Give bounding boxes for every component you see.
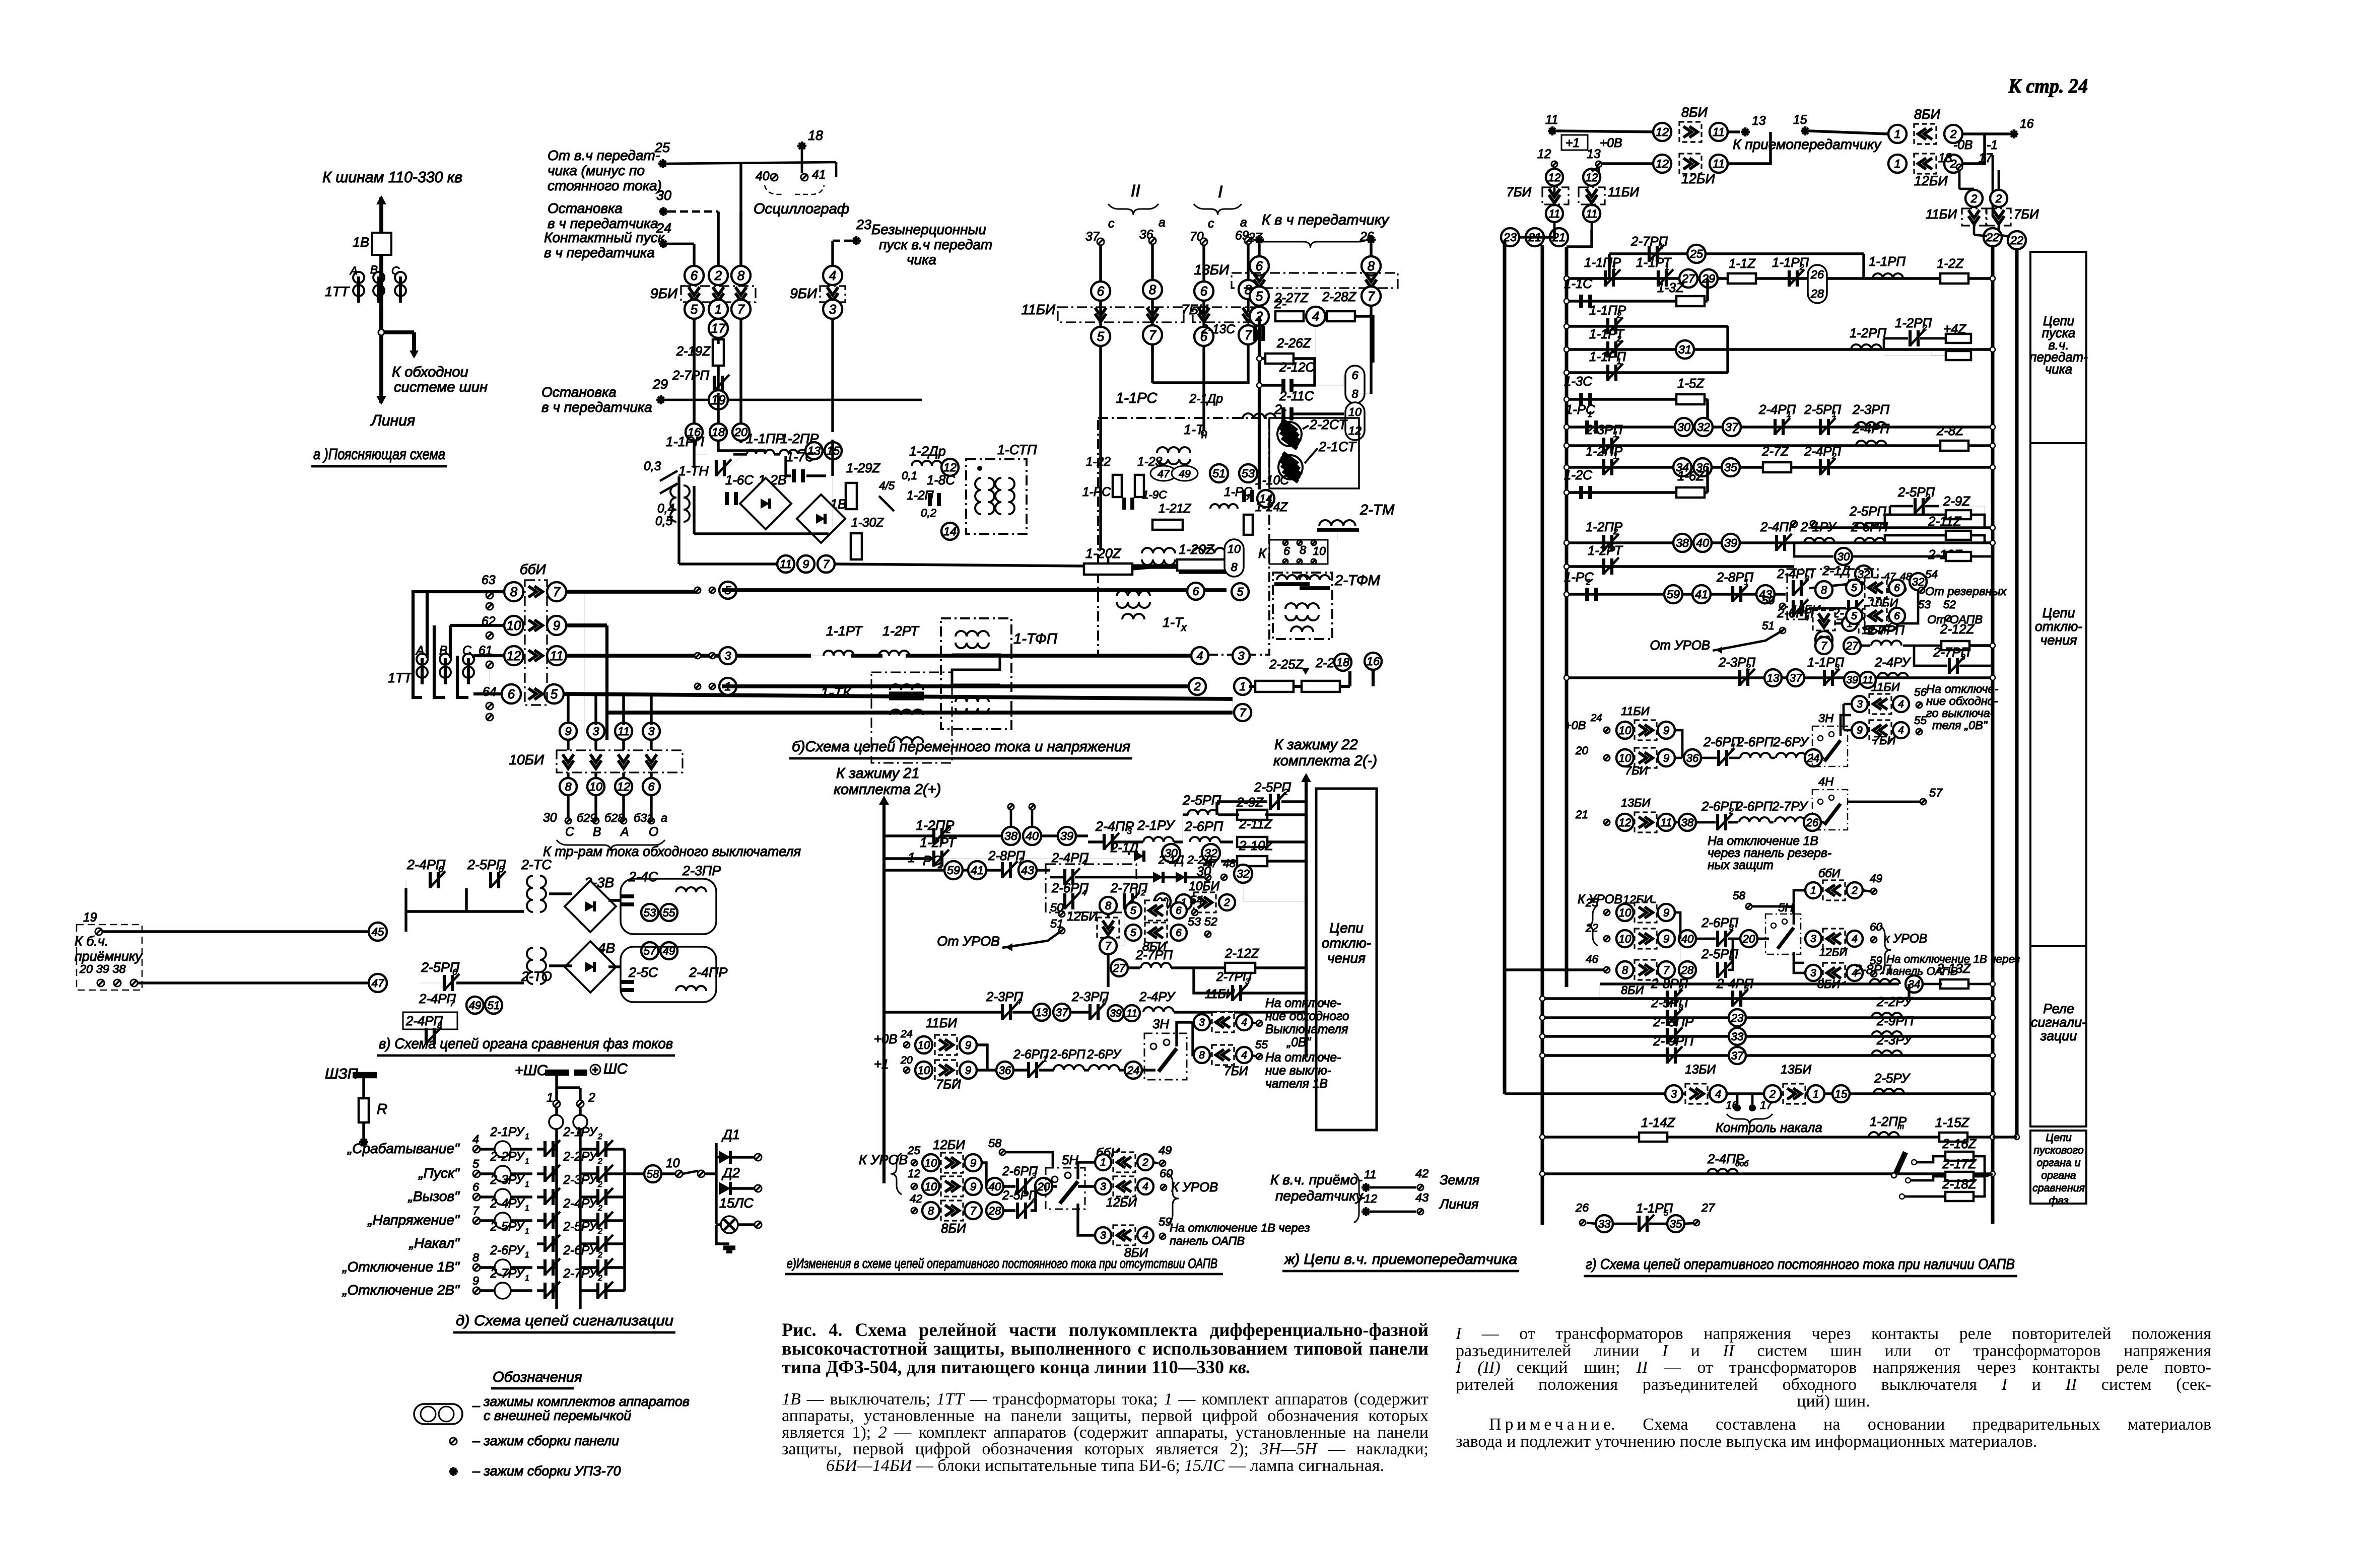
svg-text:1-1РП: 1-1РП	[1869, 255, 1906, 269]
svg-text:13БИ: 13БИ	[1685, 1063, 1716, 1077]
svg-text:Цепи: Цепи	[2043, 605, 2075, 620]
svg-text:с: с	[1208, 217, 1214, 231]
svg-text:7БИ: 7БИ	[936, 1078, 961, 1092]
svg-text:41: 41	[1695, 588, 1708, 601]
svg-text:49: 49	[469, 999, 482, 1012]
svg-text:1-10С: 1-10С	[1255, 474, 1289, 487]
svg-text:11: 11	[1713, 125, 1725, 138]
svg-text:2-8Z: 2-8Z	[1936, 424, 1964, 438]
svg-text:24: 24	[1590, 713, 1602, 724]
svg-text:11: 11	[1364, 1168, 1376, 1181]
svg-text:Линия: Линия	[370, 412, 415, 429]
svg-text:чателя 1В: чателя 1В	[1265, 1077, 1328, 1091]
svg-text:„Накал": „Накал"	[409, 1235, 460, 1251]
svg-text:8: 8	[1368, 259, 1375, 273]
svg-text:„0В": „0В"	[1286, 1036, 1311, 1049]
svg-text:6: 6	[1176, 905, 1182, 917]
svg-text:41: 41	[812, 168, 826, 182]
svg-text:40: 40	[1026, 829, 1039, 842]
svg-text:2: 2	[597, 1274, 602, 1283]
svg-text:18: 18	[808, 128, 823, 143]
svg-text:2: 2	[1140, 889, 1145, 897]
svg-text:2-3РУ: 2-3РУ	[1876, 1033, 1913, 1047]
svg-text:7: 7	[450, 999, 455, 1008]
svg-text:40: 40	[756, 170, 770, 183]
svg-text:2-1Др: 2-1Др	[1189, 392, 1223, 406]
svg-text:25: 25	[654, 140, 670, 155]
svg-text:На отключе-: На отключе-	[1926, 682, 1999, 695]
svg-text:К обходнои: К обходнои	[392, 364, 468, 380]
svg-text:7: 7	[1239, 706, 1246, 719]
svg-text:3: 3	[1100, 1181, 1106, 1192]
svg-text:10: 10	[925, 1157, 937, 1169]
svg-text:б28: б28	[604, 811, 624, 824]
svg-text:11БИ: 11БИ	[1205, 988, 1235, 1001]
svg-text:2-5РУ: 2-5РУ	[490, 1220, 525, 1234]
svg-text:1-1ПР: 1-1ПР	[746, 431, 784, 446]
svg-text:1: 1	[715, 303, 722, 317]
svg-text:д) Схема цепей сигнализаци: д) Схема цепей сигнализации	[456, 1313, 673, 1329]
svg-text:40: 40	[1696, 536, 1709, 549]
svg-text:5: 5	[1237, 585, 1244, 598]
svg-text:6: 6	[508, 687, 515, 701]
svg-text:2-12Z: 2-12Z	[1225, 947, 1260, 961]
svg-text:59: 59	[1667, 588, 1680, 601]
svg-text:12: 12	[507, 649, 521, 663]
svg-text:7БИ: 7БИ	[1224, 1065, 1248, 1078]
svg-text:55: 55	[1255, 1038, 1268, 1051]
svg-text:20: 20	[734, 426, 747, 439]
svg-text:2- 3ПР: 2- 3ПР	[1653, 1015, 1694, 1029]
svg-text:Д1: Д1	[721, 1127, 740, 1142]
svg-text:3: 3	[1810, 967, 1816, 979]
svg-text:2-6РП: 2-6РП	[1050, 1048, 1085, 1062]
svg-text:6: 6	[1192, 585, 1199, 598]
svg-text:3: 3	[1857, 698, 1863, 710]
svg-text:8: 8	[1622, 964, 1628, 976]
svg-text:55: 55	[1914, 714, 1927, 727]
svg-text:10: 10	[1619, 906, 1631, 919]
svg-text:+ШС: +ШС	[515, 1063, 548, 1079]
svg-text:– зажим сборки УПЗ-70: – зажим сборки УПЗ-70	[472, 1463, 621, 1478]
svg-text:Безынерционныи: Безынерционныи	[871, 222, 986, 237]
svg-text:К шинам 110-330 кв: К шинам 110-330 кв	[322, 169, 462, 186]
svg-text:13: 13	[1752, 114, 1766, 128]
svg-text:63: 63	[482, 574, 496, 587]
svg-text:24: 24	[1807, 752, 1820, 764]
svg-text:10: 10	[925, 1180, 937, 1193]
svg-text:4: 4	[1898, 698, 1904, 710]
svg-text:стоянного тока): стоянного тока)	[548, 178, 662, 193]
svg-text:2-4РП: 2-4РП	[1852, 422, 1889, 436]
svg-text:чика: чика	[2045, 363, 2072, 377]
svg-text:б31: б31	[634, 811, 653, 824]
svg-text:С: С	[565, 825, 574, 839]
svg-text:1ТТ: 1ТТ	[388, 670, 413, 685]
svg-text:1: 1	[1813, 1088, 1819, 1100]
svg-text:5: 5	[551, 687, 558, 701]
svg-text:12БИ: 12БИ	[1106, 1196, 1137, 1210]
svg-text:5: 5	[691, 303, 698, 317]
svg-text:6: 6	[1351, 369, 1358, 382]
svg-text:2-1Д: 2-1Д	[1822, 564, 1850, 578]
svg-text:2: 2	[937, 861, 943, 870]
svg-text:1-1Z: 1-1Z	[1729, 257, 1756, 271]
svg-text:4: 4	[472, 1133, 479, 1146]
svg-text:2: 2	[1586, 578, 1591, 587]
svg-text:28: 28	[1810, 287, 1824, 300]
svg-text:3: 3	[648, 725, 654, 738]
svg-text:2-10Z: 2-10Z	[1239, 839, 1274, 853]
svg-text:Реле: Реле	[2043, 1001, 2074, 1016]
svg-text:+1: +1	[874, 1058, 889, 1072]
svg-text:2-26Z: 2-26Z	[1276, 336, 1312, 350]
svg-text:33: 33	[1731, 1030, 1744, 1043]
svg-text:37: 37	[1056, 1006, 1068, 1019]
svg-text:1-6Z: 1-6Z	[1677, 469, 1705, 483]
svg-text:ббИ: ббИ	[520, 561, 547, 577]
svg-text:Выключателя: Выключателя	[1265, 1023, 1348, 1036]
svg-text:18: 18	[1336, 656, 1349, 669]
svg-text:сигнали-: сигнали-	[2031, 1015, 2086, 1030]
svg-text:2-9РП: 2-9РП	[1876, 1014, 1914, 1028]
svg-text:4: 4	[1241, 1049, 1247, 1061]
svg-text:7: 7	[823, 557, 830, 571]
svg-text:33: 33	[1598, 1218, 1611, 1230]
svg-text:Осциллограф: Осциллограф	[754, 201, 849, 217]
svg-text:В: В	[593, 825, 601, 839]
svg-text:2-8РП: 2-8РП	[1854, 963, 1891, 977]
svg-text:53: 53	[1918, 598, 1931, 611]
svg-text:К: К	[1258, 546, 1267, 561]
svg-text:43: 43	[1021, 864, 1034, 877]
svg-text:2-2РУ: 2-2РУ	[563, 1150, 598, 1164]
svg-text:16: 16	[2020, 117, 2034, 131]
svg-text:Остановка: Остановка	[541, 384, 617, 400]
svg-text:18: 18	[712, 426, 725, 439]
svg-text:13: 13	[1767, 672, 1780, 684]
svg-text:2-17Z: 2-17Z	[1942, 1157, 1977, 1171]
svg-text:6: 6	[1097, 285, 1105, 299]
svg-text:2-16Z: 2-16Z	[1942, 1137, 1977, 1151]
svg-text:1-24Z: 1-24Z	[1255, 501, 1288, 514]
svg-text:2-5РП: 2-5РП	[1849, 505, 1886, 519]
svg-text:7БИ: 7БИ	[1506, 185, 1531, 199]
svg-text:1-3Z: 1-3Z	[1657, 281, 1684, 295]
svg-text:8: 8	[928, 1205, 934, 1217]
svg-text:Земля: Земля	[1440, 1172, 1479, 1187]
svg-text:а: а	[661, 811, 667, 824]
svg-text:2- 9РП: 2- 9РП	[1653, 1034, 1694, 1048]
svg-text:1-20Z: 1-20Z	[1179, 542, 1215, 557]
svg-text:22: 22	[1986, 231, 1999, 244]
svg-text:2: 2	[597, 1227, 602, 1236]
svg-text:12: 12	[943, 461, 957, 474]
svg-text:10: 10	[918, 1039, 930, 1051]
svg-text:17: 17	[1979, 152, 1993, 165]
svg-text:1: 1	[1239, 680, 1246, 693]
svg-text:37: 37	[1731, 1049, 1744, 1062]
svg-text:27: 27	[1113, 962, 1126, 974]
svg-text:2: 2	[1193, 680, 1200, 693]
svg-text:35: 35	[1724, 461, 1738, 474]
svg-text:К УРОВ: К УРОВ	[1171, 1180, 1218, 1194]
svg-text:От УРОВ: От УРОВ	[937, 934, 1000, 949]
svg-text:1: 1	[1894, 127, 1900, 140]
svg-text:9БИ: 9БИ	[650, 286, 678, 301]
svg-text:28: 28	[1681, 964, 1694, 976]
svg-text:12: 12	[908, 1167, 920, 1180]
svg-text:8: 8	[1149, 283, 1157, 297]
svg-text:1-22: 1-22	[1086, 455, 1111, 469]
svg-text:4: 4	[1898, 725, 1904, 736]
svg-text:7: 7	[1368, 290, 1376, 304]
svg-text:20: 20	[1575, 744, 1588, 757]
svg-text:2-7РУ: 2-7РУ	[490, 1267, 525, 1281]
svg-text:доб: доб	[1735, 1160, 1749, 1168]
svg-text:2-5РП: 2-5РП	[1182, 793, 1221, 808]
svg-text:57: 57	[1929, 786, 1943, 799]
svg-text:20 39 38: 20 39 38	[79, 962, 126, 975]
svg-text:1-2РТ: 1-2РТ	[882, 623, 919, 639]
svg-text:2-3ПР: 2-3ПР	[682, 863, 721, 878]
svg-text:10: 10	[1619, 933, 1631, 945]
svg-text:10: 10	[1619, 724, 1631, 737]
svg-text:0,3: 0,3	[644, 460, 661, 473]
svg-text:чения: чения	[2041, 632, 2077, 648]
svg-text:2-6РП: 2-6РП	[1736, 735, 1774, 749]
svg-text:3: 3	[1238, 649, 1244, 662]
svg-text:31: 31	[1678, 343, 1691, 356]
svg-text:45: 45	[372, 926, 384, 938]
svg-text:4/5: 4/5	[879, 479, 895, 492]
svg-text:в ч передатчика: в ч передатчика	[548, 216, 658, 231]
svg-text:2: 2	[597, 1251, 602, 1259]
svg-text:К УРОВ: К УРОВ	[1578, 893, 1622, 906]
svg-text:7: 7	[472, 1204, 480, 1217]
svg-text:2-2РУ: 2-2РУ	[490, 1150, 525, 1164]
svg-text:8: 8	[1821, 584, 1827, 596]
svg-text:3: 3	[1127, 826, 1132, 836]
svg-text:21: 21	[1575, 808, 1588, 821]
svg-text:1-14Z: 1-14Z	[1641, 1116, 1676, 1130]
svg-text:1: 1	[525, 1227, 529, 1236]
svg-text:22: 22	[2010, 234, 2023, 247]
svg-text:1-21Z: 1-21Z	[1159, 502, 1191, 516]
svg-text:7: 7	[1663, 964, 1670, 976]
svg-text:1: 1	[525, 1157, 529, 1166]
svg-text:11: 11	[780, 557, 792, 571]
svg-text:2-25Z: 2-25Z	[1269, 658, 1304, 672]
svg-text:25: 25	[1585, 896, 1598, 909]
svg-text:2-12Z: 2-12Z	[1940, 622, 1975, 637]
svg-text:26: 26	[1810, 268, 1824, 281]
svg-text:1-9С: 1-9С	[1142, 488, 1167, 501]
svg-text:11: 11	[550, 649, 564, 663]
svg-text:зации: зации	[2040, 1028, 2077, 1043]
svg-text:14: 14	[943, 525, 957, 538]
svg-text:сравнения: сравнения	[2032, 1182, 2085, 1194]
svg-text:1: 1	[547, 1091, 554, 1105]
svg-text:8: 8	[737, 269, 745, 283]
svg-text:1: 1	[1588, 410, 1592, 419]
svg-text:2-13С: 2-13С	[1201, 323, 1235, 336]
svg-text:Остановка: Остановка	[548, 200, 623, 216]
svg-text:64: 64	[483, 685, 496, 699]
svg-text:2-1РУ: 2-1РУ	[1137, 818, 1176, 833]
svg-text:Линия: Линия	[1439, 1196, 1478, 1212]
svg-text:7: 7	[970, 1205, 977, 1217]
svg-text:1В: 1В	[353, 235, 369, 250]
svg-text:в) Схема цепей органа сравн: в) Схема цепей органа сравнения фаз токо…	[379, 1036, 673, 1052]
svg-text:9: 9	[965, 1064, 971, 1077]
svg-text:1: 1	[1100, 1157, 1106, 1168]
svg-text:6: 6	[1894, 582, 1900, 594]
svg-text:К зажиму 22: К зажиму 22	[1274, 737, 1358, 753]
svg-text:10: 10	[507, 619, 521, 633]
svg-text:ние обходно-: ние обходно-	[1926, 694, 1998, 708]
svg-text:11: 11	[618, 725, 630, 738]
svg-text:11: 11	[1586, 207, 1598, 220]
svg-text:го выключа-: го выключа-	[1926, 707, 1994, 720]
svg-text:2-7РП: 2-7РП	[1867, 623, 1905, 638]
svg-text:комплекта 2(+): комплекта 2(+)	[834, 782, 941, 798]
svg-text:органа: органа	[2041, 1169, 2076, 1181]
svg-text:12БИ: 12БИ	[1067, 910, 1098, 924]
svg-text:е)Изменения в схеме цепей опер: е)Изменения в схеме цепей оперативного п…	[787, 1256, 1217, 1271]
svg-text:фаз: фаз	[2049, 1194, 2068, 1207]
svg-text:8: 8	[472, 1251, 479, 1264]
svg-text:4: 4	[1715, 1088, 1721, 1100]
svg-text:1-1РТ: 1-1РТ	[826, 623, 863, 639]
svg-text:58: 58	[647, 1168, 659, 1180]
svg-text:чения: чения	[1327, 950, 1366, 966]
svg-text:51: 51	[488, 999, 500, 1012]
svg-text:1ТТ: 1ТТ	[325, 284, 350, 299]
svg-text:2-2СТ: 2-2СТ	[1309, 417, 1347, 432]
svg-text:Цепи: Цепи	[1329, 920, 1364, 936]
svg-text:12: 12	[1548, 171, 1561, 184]
svg-text:2-12С: 2-12С	[1279, 361, 1315, 375]
svg-text:1-1РП: 1-1РП	[666, 434, 705, 449]
svg-text:4: 4	[1312, 310, 1319, 324]
svg-text:25: 25	[1689, 247, 1704, 260]
svg-text:1-1РС: 1-1РС	[1116, 390, 1158, 406]
svg-text:2-6РП: 2-6РП	[1735, 800, 1773, 814]
svg-text:47: 47	[1158, 468, 1170, 480]
svg-text:50: 50	[1762, 594, 1775, 607]
svg-text:7: 7	[553, 585, 561, 599]
svg-text:через панель резерв-: через панель резерв-	[1708, 847, 1831, 860]
svg-text:На отключе-: На отключе-	[1265, 1051, 1341, 1065]
svg-text:1-3С: 1-3С	[1564, 375, 1592, 389]
svg-text:38: 38	[1681, 816, 1694, 829]
svg-text:х: х	[1181, 621, 1187, 633]
svg-text:10: 10	[1313, 544, 1326, 557]
svg-text:1-5Z: 1-5Z	[1677, 377, 1705, 391]
svg-text:5: 5	[1664, 1209, 1668, 1218]
svg-text:7: 7	[1821, 640, 1827, 652]
svg-text:2-4С: 2-4С	[628, 869, 658, 884]
svg-text:58: 58	[988, 1137, 1001, 1150]
svg-text:9: 9	[472, 1274, 479, 1287]
svg-text:6: 6	[1894, 610, 1900, 622]
svg-text:8БИ: 8БИ	[1681, 105, 1708, 120]
svg-text:1-2Др: 1-2Др	[909, 444, 946, 459]
svg-text:2-1РУ: 2-1РУ	[563, 1125, 598, 1139]
svg-text:52: 52	[1943, 598, 1956, 611]
svg-text:„Вызов": „Вызов"	[408, 1188, 460, 1204]
svg-text:К стр. 24: К стр. 24	[2008, 75, 2088, 97]
svg-text:12: 12	[1656, 157, 1669, 170]
svg-text:Обозначения: Обозначения	[493, 1369, 582, 1385]
svg-text:8: 8	[1199, 1049, 1205, 1061]
svg-text:2-5РУ: 2-5РУ	[1874, 1072, 1911, 1086]
svg-text:7БИ: 7БИ	[1873, 734, 1895, 747]
svg-text:„Отключение 2В": „Отключение 2В"	[342, 1282, 460, 1298]
svg-text:2: 2	[597, 1133, 602, 1141]
svg-text:2-6РУ: 2-6РУ	[1086, 1048, 1122, 1062]
svg-text:2-2РУ: 2-2РУ	[1876, 995, 1913, 1009]
svg-text:5: 5	[1256, 290, 1263, 304]
svg-text:22: 22	[1585, 922, 1598, 934]
svg-text:2-3РУ: 2-3РУ	[490, 1173, 525, 1187]
svg-text:2-5РУ: 2-5РУ	[563, 1220, 598, 1234]
svg-text:1-2РТ: 1-2РТ	[1588, 544, 1623, 558]
svg-text:11БИ: 11БИ	[1926, 207, 1957, 222]
svg-text:53: 53	[1242, 467, 1255, 480]
svg-text:37: 37	[1725, 420, 1739, 434]
svg-text:2-ТМ: 2-ТМ	[1359, 502, 1395, 518]
svg-text:б29: б29	[577, 811, 596, 824]
svg-text:39: 39	[1846, 674, 1858, 686]
svg-text:1-29Z: 1-29Z	[846, 461, 881, 475]
svg-text:2-4РУ: 2-4РУ	[1874, 656, 1911, 670]
svg-text:отклю-: отклю-	[2035, 619, 2082, 634]
svg-text:46: 46	[1586, 953, 1598, 965]
svg-text:29: 29	[652, 377, 668, 392]
svg-text:9: 9	[1663, 724, 1669, 737]
svg-text:2: 2	[597, 1204, 602, 1213]
svg-text:ж) Цепи в.ч. приемопередатч: ж) Цепи в.ч. приемопередатчика	[1283, 1251, 1517, 1268]
svg-text:1-7С: 1-7С	[786, 450, 814, 464]
svg-text:Цепи: Цепи	[2046, 1132, 2071, 1144]
svg-text:24: 24	[900, 1028, 913, 1040]
svg-text:2-6РУ: 2-6РУ	[563, 1244, 598, 1257]
svg-text:11: 11	[1713, 157, 1725, 170]
svg-text:2-7РП: 2-7РП	[1135, 948, 1173, 962]
svg-text:3: 3	[829, 303, 837, 317]
svg-text:„Напряжение": „Напряжение"	[367, 1212, 460, 1228]
svg-text:11БИ: 11БИ	[1608, 185, 1639, 199]
svg-text:2-28Z: 2-28Z	[1322, 290, 1357, 304]
svg-text:а )Поясняющая схема: а )Поясняющая схема	[313, 446, 445, 463]
svg-text:4: 4	[1142, 1230, 1148, 1241]
svg-text:12БИ: 12БИ	[1819, 946, 1848, 958]
svg-text:с внешней перемычкой: с внешней перемычкой	[484, 1408, 631, 1423]
svg-text:20: 20	[1037, 1180, 1050, 1193]
svg-text:+1: +1	[1566, 136, 1580, 150]
svg-text:5: 5	[1851, 610, 1857, 622]
svg-text:б)Схема цепей переменного: б)Схема цепей переменного тока и напряже…	[792, 739, 1130, 755]
svg-text:1-ТФП: 1-ТФП	[1013, 631, 1058, 647]
svg-text:56: 56	[1255, 1008, 1256, 1008]
svg-text:9: 9	[1857, 725, 1863, 736]
svg-text:передатчику: передатчику	[1275, 1188, 1364, 1204]
svg-text:+0В: +0В	[1565, 719, 1586, 732]
svg-text:2: 2	[597, 1180, 602, 1189]
svg-text:3: 3	[1671, 1088, 1677, 1100]
